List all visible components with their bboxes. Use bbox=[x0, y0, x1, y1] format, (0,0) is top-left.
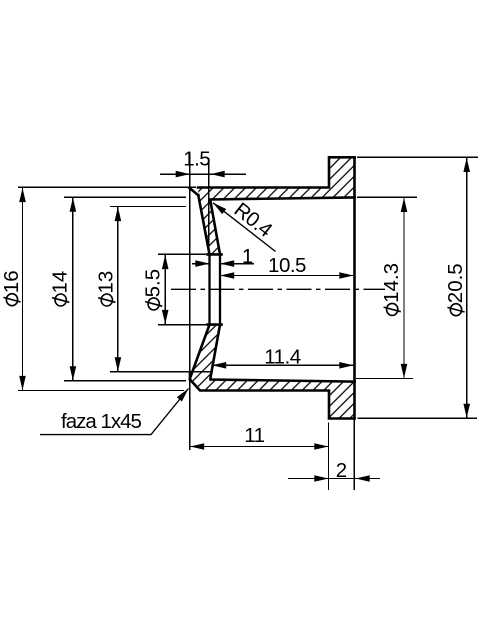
svg-text:16: 16 bbox=[0, 270, 23, 293]
svg-text:11: 11 bbox=[244, 424, 264, 447]
svg-text:13: 13 bbox=[95, 271, 118, 294]
svg-text:faza 1x45: faza 1x45 bbox=[61, 410, 141, 433]
svg-text:1.5: 1.5 bbox=[183, 147, 210, 170]
svg-text:1: 1 bbox=[242, 245, 253, 268]
svg-text:14.3: 14.3 bbox=[380, 263, 403, 303]
svg-text:20.5: 20.5 bbox=[444, 263, 467, 303]
svg-text:14: 14 bbox=[49, 271, 72, 294]
svg-text:2: 2 bbox=[336, 459, 347, 482]
svg-text:11.4: 11.4 bbox=[264, 346, 300, 369]
svg-text:10.5: 10.5 bbox=[268, 254, 306, 277]
svg-text:5.5: 5.5 bbox=[142, 269, 165, 298]
